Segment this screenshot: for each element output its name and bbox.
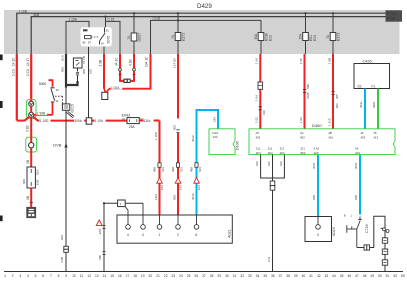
- svg-text:39: 39: [294, 274, 298, 278]
- svg-text:1 64: 1 64: [255, 58, 259, 64]
- switch 9060: [39, 80, 59, 115]
- connector box C1 on wire from bus3: [60, 55, 85, 74]
- power distribution band: [4, 10, 400, 54]
- ruler baseline: [4, 271, 403, 273]
- svg-text:44: 44: [332, 274, 336, 278]
- svg-text:30: 30: [56, 88, 60, 92]
- svg-text:33: 33: [248, 274, 252, 278]
- svg-text:E02: E02: [269, 35, 273, 41]
- svg-text:S21: S21: [180, 167, 184, 172]
- svg-text:A05: A05: [354, 195, 358, 200]
- svg-text:1 02: 1 02: [255, 117, 259, 123]
- svg-text:100: 100: [89, 69, 93, 74]
- left page mark 1: [0, 55, 3, 61]
- svg-text:1 3B: 1 3B: [98, 60, 102, 67]
- svg-text:35: 35: [263, 274, 267, 278]
- svg-text:W: W: [56, 99, 59, 103]
- connector box 102A: [102, 92, 108, 99]
- svg-text:DVB: DVB: [53, 143, 62, 148]
- svg-text:S86: S86: [306, 84, 310, 89]
- ruler numbers: [4, 274, 405, 278]
- svg-text:010: 010: [279, 161, 283, 166]
- svg-text:18: 18: [133, 274, 137, 278]
- wire black to G015: [65, 86, 67, 104]
- svg-text:15A: 15A: [299, 33, 303, 40]
- svg-text:6: 6: [195, 233, 197, 237]
- svg-text:E72: E72: [178, 185, 182, 190]
- svg-text:38: 38: [286, 274, 290, 278]
- inline connector on DVB wire: [64, 246, 69, 252]
- svg-text:600: 600: [82, 69, 86, 74]
- svg-text:5: 5: [35, 274, 37, 278]
- left page mark 3: [0, 216, 3, 222]
- inline connector 3 on right ground: [382, 260, 387, 265]
- D460 top pin labels: [256, 131, 379, 139]
- svg-text:E09: E09: [36, 179, 40, 185]
- svg-text:2K3: 2K3: [268, 151, 273, 155]
- svg-text:3612: 3612: [191, 193, 195, 200]
- wire red from bus3 at 120: [114, 54, 123, 82]
- wire cyan to A021 pin6: [191, 110, 218, 215]
- connector box on red bus at 89: [86, 118, 92, 124]
- svg-text:A021: A021: [228, 229, 232, 238]
- svg-text:F1: F1: [372, 84, 376, 88]
- svg-text:OL8: OL8: [60, 55, 64, 61]
- inline connector on wire 178 upper: [176, 130, 179, 133]
- svg-text:1 10D: 1 10D: [40, 119, 49, 123]
- wire red 13B from relay: [98, 47, 105, 92]
- ground wire at 104: [98, 203, 106, 271]
- svg-text:316B: 316B: [306, 92, 310, 99]
- splice double circles: [381, 228, 390, 233]
- svg-text:51: 51: [386, 274, 390, 278]
- svg-text:23: 23: [171, 274, 175, 278]
- wire red 199B: [34, 111, 53, 115]
- svg-text:24: 24: [179, 274, 183, 278]
- inline connector on ground converge: [270, 181, 275, 190]
- svg-text:52: 52: [393, 274, 397, 278]
- svg-text:1: 1: [351, 214, 353, 218]
- svg-text:D2: D2: [358, 84, 362, 88]
- svg-text:C720: C720: [365, 224, 369, 233]
- twisted wire hatch: [67, 111, 74, 117]
- inline connector symbols row y165: [152, 163, 202, 172]
- svg-text:1 99B: 1 99B: [37, 111, 45, 115]
- fuse E09 vertical: [22, 167, 39, 188]
- svg-text:134 1B: 134 1B: [172, 58, 176, 68]
- svg-text:9076: 9076: [107, 36, 111, 44]
- svg-text:85: 85: [83, 41, 87, 45]
- svg-text:15: 15: [110, 274, 114, 278]
- svg-text:48: 48: [363, 274, 367, 278]
- svg-text:S80: S80: [98, 255, 102, 260]
- wire red from fuse E51 to D460: [299, 54, 310, 129]
- svg-text:22: 22: [164, 274, 168, 278]
- control module D100: [209, 129, 240, 155]
- svg-text:28: 28: [210, 274, 214, 278]
- ground bar to pins 4/3: [103, 200, 143, 215]
- svg-text:100b: 100b: [75, 119, 82, 123]
- svg-text:3 1B: 3 1B: [26, 125, 30, 132]
- connector C pair (green): [26, 99, 36, 118]
- svg-text:1 C0: 1 C0: [26, 69, 30, 76]
- relay 9076: [81, 27, 112, 54]
- svg-text:F 7,5A: F 7,5A: [387, 12, 397, 16]
- svg-text:3: 3: [317, 233, 319, 237]
- svg-text:211: 211: [301, 147, 306, 151]
- svg-text:21: 21: [156, 274, 160, 278]
- svg-text:W: W: [101, 42, 104, 46]
- wire red feed 2: [26, 54, 31, 102]
- bus 50B (bus2): [31, 13, 385, 54]
- svg-text:43: 43: [324, 274, 328, 278]
- wire cyan D460 to A024: [312, 155, 318, 217]
- wire red to fuse E09: [26, 148, 31, 167]
- warning triangles row y180: [157, 178, 201, 190]
- svg-text:1 02A: 1 02A: [111, 86, 120, 90]
- svg-text:36: 36: [271, 274, 275, 278]
- D460 ground pins converge: [255, 155, 284, 181]
- svg-text:G027: G027: [138, 33, 142, 42]
- svg-text:1 C9: 1 C9: [12, 69, 16, 76]
- svg-text:50B: 50B: [34, 13, 40, 17]
- switch C720: [344, 214, 369, 248]
- fuse E172: [171, 12, 185, 54]
- svg-text:34: 34: [256, 274, 260, 278]
- svg-text:E03: E03: [313, 35, 317, 41]
- svg-text:3: 3: [19, 274, 21, 278]
- svg-text:A1: A1: [122, 117, 126, 121]
- svg-text:17: 17: [126, 274, 130, 278]
- inline connector 2 on right ground: [382, 249, 387, 254]
- svg-text:1 64: 1 64: [255, 95, 259, 101]
- svg-text:30A: 30A: [254, 33, 258, 40]
- svg-text:1: 1: [4, 274, 6, 278]
- connector box A021: [117, 215, 232, 243]
- svg-text:53: 53: [401, 274, 405, 278]
- svg-text:010: 010: [267, 161, 271, 166]
- svg-text:11: 11: [80, 274, 84, 278]
- svg-text:4 4Z: 4 4Z: [314, 147, 320, 151]
- svg-text:A2: A2: [300, 131, 304, 135]
- fuse E173: [326, 12, 340, 54]
- svg-text:8: 8: [58, 274, 60, 278]
- svg-text:71 1B: 71 1B: [82, 56, 86, 64]
- svg-text:010: 010: [255, 161, 259, 166]
- wire black DVB run: [53, 110, 67, 271]
- svg-text:9060: 9060: [39, 82, 47, 86]
- svg-text:7: 7: [50, 274, 52, 278]
- svg-text:E43: E43: [98, 229, 102, 234]
- wire red from sub-bus C105: [150, 54, 152, 90]
- svg-text:14 1C: 14 1C: [12, 57, 16, 66]
- wire red to A021 pin2: [172, 54, 178, 215]
- svg-text:453: 453: [361, 135, 366, 139]
- svg-text:A5: A5: [256, 131, 260, 135]
- wire red junction diagonals: [17, 117, 38, 134]
- fuse E036: [254, 20, 272, 54]
- svg-text:12: 12: [87, 274, 91, 278]
- svg-text:87: 87: [88, 41, 92, 45]
- svg-text:49: 49: [370, 274, 374, 278]
- svg-text:D100: D100: [236, 141, 240, 150]
- svg-text:42: 42: [361, 131, 365, 135]
- svg-text:25: 25: [187, 274, 191, 278]
- svg-text:49B: 49B: [152, 167, 156, 172]
- svg-text:413: 413: [374, 135, 379, 139]
- svg-text:F 15A: F 15A: [387, 17, 396, 21]
- A021 pin 3: [141, 215, 146, 237]
- wire red to A021 pin1: [154, 121, 160, 216]
- svg-text:4B: 4B: [328, 131, 332, 135]
- svg-text:14: 14: [103, 274, 107, 278]
- svg-text:46: 46: [347, 274, 351, 278]
- svg-text:4A9: 4A9: [314, 151, 319, 155]
- svg-text:16: 16: [118, 274, 122, 278]
- svg-text:D429: D429: [197, 3, 212, 10]
- svg-text:363T: 363T: [312, 162, 316, 169]
- svg-text:7 10B: 7 10B: [19, 9, 27, 13]
- wire red between connector halves: [30, 106, 32, 112]
- svg-text:6: 6: [42, 274, 44, 278]
- svg-text:363T: 363T: [354, 162, 358, 169]
- svg-text:363L: 363L: [359, 101, 363, 108]
- svg-text:1 15A: 1 15A: [69, 18, 78, 22]
- connector G015: [62, 104, 74, 113]
- svg-text:134 1C: 134 1C: [144, 56, 148, 67]
- svg-text:318: 318: [262, 110, 266, 115]
- svg-text:19: 19: [141, 274, 145, 278]
- wire red from fuse E036 to D460: [255, 54, 266, 129]
- wire cyan C426 D2 to D460: [359, 89, 365, 129]
- svg-text:600: 600: [60, 235, 64, 240]
- svg-text:30: 30: [106, 29, 110, 33]
- svg-text:365: 365: [335, 94, 339, 99]
- svg-text:1 10b: 1 10b: [95, 119, 103, 123]
- svg-text:41: 41: [309, 274, 313, 278]
- svg-text:453: 453: [300, 135, 305, 139]
- svg-text:E172: E172: [182, 33, 186, 41]
- wire black from relay 85: [89, 47, 93, 118]
- svg-text:10: 10: [72, 274, 76, 278]
- svg-text:G015: G015: [71, 104, 75, 112]
- svg-text:111b: 111b: [144, 119, 151, 123]
- svg-text:D460: D460: [312, 123, 322, 128]
- dashed mechanical link: [55, 96, 63, 103]
- svg-text:9B: 9B: [26, 160, 30, 164]
- svg-text:4: 4: [27, 274, 29, 278]
- svg-text:1 31C: 1 31C: [327, 117, 331, 126]
- wire black C720 to ground chain: [357, 216, 385, 271]
- svg-text:44 1C: 44 1C: [114, 57, 118, 66]
- wire black with shield elbow: [66, 54, 79, 88]
- svg-text:390L: 390L: [372, 101, 376, 108]
- component A024: [305, 217, 336, 242]
- svg-text:1: 1: [158, 233, 160, 237]
- svg-text:20: 20: [148, 274, 152, 278]
- svg-text:C 15: C 15: [108, 18, 115, 22]
- svg-text:1 66: 1 66: [299, 58, 303, 64]
- svg-text:453: 453: [256, 135, 261, 139]
- svg-text:50: 50: [378, 274, 382, 278]
- svg-text:E173: E173: [337, 33, 341, 41]
- svg-text:3612: 3612: [191, 135, 195, 142]
- component diode block between 120 and 134: [123, 79, 130, 83]
- svg-text:E72: E72: [197, 185, 201, 190]
- svg-text:600: 600: [172, 125, 176, 130]
- wire red 111b: [139, 118, 159, 123]
- wire cyan D460 to C720: [354, 155, 360, 215]
- svg-text:600: 600: [22, 179, 26, 184]
- svg-text:T: T: [120, 202, 122, 206]
- svg-text:37: 37: [279, 274, 283, 278]
- svg-text:E72: E72: [160, 185, 164, 190]
- svg-text:29: 29: [217, 274, 221, 278]
- wire red to motor: [26, 196, 30, 200]
- svg-text:45: 45: [340, 274, 344, 278]
- svg-text:A05: A05: [312, 195, 316, 200]
- svg-text:25A: 25A: [36, 170, 40, 175]
- svg-text:40: 40: [302, 274, 306, 278]
- connector green box with terminal: [26, 134, 37, 152]
- svg-text:608: 608: [172, 195, 176, 200]
- wire red from fuse G027: [128, 54, 134, 81]
- svg-text:242: 242: [212, 117, 216, 122]
- svg-text:416: 416: [328, 135, 333, 139]
- svg-text:30: 30: [225, 274, 229, 278]
- component C426: [354, 59, 390, 88]
- svg-text:14 1T: 14 1T: [26, 58, 30, 66]
- svg-text:C105: C105: [153, 17, 161, 21]
- svg-text:8K3: 8K3: [301, 151, 306, 155]
- svg-text:A024: A024: [332, 227, 336, 236]
- wire red from fuse E173 to D460: [327, 54, 339, 129]
- svg-text:47: 47: [355, 274, 359, 278]
- inline connector circles on wires 120/134: [119, 68, 136, 74]
- svg-text:2K3: 2K3: [256, 151, 261, 155]
- svg-text:9B: 9B: [26, 196, 30, 200]
- svg-text:25A: 25A: [129, 125, 136, 129]
- svg-text:2: 2: [12, 274, 14, 278]
- svg-text:S21: S21: [198, 167, 202, 172]
- wire green C426 F1 to D460: [372, 89, 378, 129]
- svg-text:49B: 49B: [171, 167, 175, 172]
- wire red 102A horizontal: [106, 85, 151, 92]
- fuse E51: [299, 12, 317, 54]
- svg-text:1 11B: 1 11B: [154, 132, 158, 140]
- svg-text:S21: S21: [161, 167, 165, 172]
- svg-text:42: 42: [317, 274, 321, 278]
- control module D460: [249, 123, 395, 155]
- svg-text:6 01: 6 01: [267, 256, 271, 262]
- wire red feed 1: [12, 54, 17, 120]
- svg-text:2: 2: [177, 233, 179, 237]
- svg-text:C426: C426: [363, 59, 372, 63]
- A021 pin 4: [126, 215, 131, 237]
- svg-text:A4: A4: [355, 147, 359, 151]
- wire red horizontal 110D: [17, 118, 127, 123]
- svg-text:13: 13: [95, 274, 99, 278]
- svg-text:211: 211: [280, 147, 285, 151]
- svg-text:211: 211: [256, 147, 261, 151]
- svg-text:1 02: 1 02: [299, 117, 303, 123]
- svg-text:866: 866: [335, 103, 339, 108]
- svg-text:1112: 1112: [154, 193, 158, 200]
- svg-text:31: 31: [233, 274, 237, 278]
- warning triangle near ground wire: [96, 220, 102, 226]
- A021 pin 2: [176, 215, 181, 237]
- left page mark 2: [0, 101, 3, 108]
- svg-text:26: 26: [194, 274, 198, 278]
- svg-text:9: 9: [65, 274, 67, 278]
- svg-text:B: B: [344, 214, 346, 218]
- svg-text:2K3: 2K3: [280, 151, 285, 155]
- motor component box: [27, 188, 36, 218]
- svg-text:27: 27: [202, 274, 206, 278]
- svg-text:600: 600: [60, 67, 64, 72]
- svg-text:134: 134: [213, 135, 218, 139]
- A021 pin 1: [157, 215, 162, 237]
- svg-text:49B: 49B: [189, 167, 193, 172]
- svg-text:32: 32: [240, 274, 244, 278]
- A021 pin 6: [194, 215, 199, 237]
- svg-text:3 0B: 3 0B: [60, 257, 64, 263]
- sub-bus C105: [151, 17, 262, 54]
- bus +30 (bus1): [17, 9, 386, 54]
- fuse G027: [127, 12, 141, 54]
- supply label box F210: [386, 10, 403, 21]
- svg-text:3: 3: [142, 233, 144, 237]
- bus 15A (bus3): [66, 16, 120, 55]
- svg-text:211: 211: [268, 147, 273, 151]
- svg-text:4 1B: 4 1B: [128, 59, 132, 66]
- inline connector 1 on right ground: [382, 238, 387, 243]
- fuse E043: [122, 114, 144, 130]
- D460 bottom pin labels: [256, 147, 361, 155]
- wire black D460 ground run: [267, 190, 273, 271]
- svg-text:4: 4: [127, 233, 129, 237]
- svg-text:45: 45: [374, 131, 378, 135]
- svg-text:1 8B: 1 8B: [327, 58, 331, 64]
- svg-text:4A3: 4A3: [355, 151, 360, 155]
